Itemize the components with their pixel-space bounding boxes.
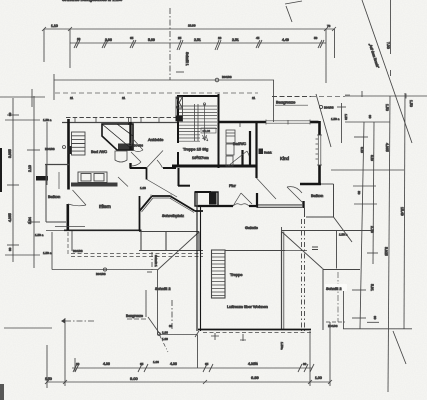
stray boundary line bottom left: [4, 327, 52, 329]
section line Schnitt 1 top: [170, 8, 189, 80]
dashed stub below Eltern west wall: [67, 232, 69, 254]
dark wall under stairs: [172, 165, 257, 168]
section Schnitt 2 east dash: [336, 231, 338, 269]
svg-text:7.00: 7.00: [386, 42, 390, 49]
svg-text:Bad /WC: Bad /WC: [91, 149, 107, 154]
luftraum right boundary double: [281, 232, 283, 331]
Bad WC east fixtures: [226, 123, 240, 166]
Flur south wall with door opening: [198, 205, 257, 207]
interior wall Bad east: [129, 122, 131, 169]
lower stair box: [212, 250, 226, 298]
section line Schnitt 1 lower stub: [147, 252, 158, 272]
svg-text:Eltern: Eltern: [99, 204, 111, 209]
outer wall north west part: dashed outer + solid inner: [66, 117, 178, 119]
dimension line total 16.99: [42, 24, 336, 32]
svg-text:1.50 a: 1.50 a: [43, 118, 52, 122]
gallery west line: [139, 232, 199, 252]
boundary line with node B04/98: [54, 74, 274, 122]
staircase divider: [195, 104, 199, 141]
wall jog balcony top: [45, 164, 70, 166]
dimension line segments top: [70, 36, 326, 50]
wall chunk x242: [241, 150, 243, 166]
svg-text:Schnitt 1: Schnitt 1: [185, 52, 189, 66]
svg-text:3.96: 3.96: [105, 38, 112, 42]
svg-text:15.49: 15.49: [400, 207, 404, 216]
Ankleide south door swing: [147, 151, 164, 169]
svg-text:Ankleide: Ankleide: [148, 137, 164, 142]
svg-text:1.50 a: 1.50 a: [43, 251, 52, 255]
door arc Bad entrance: [131, 152, 141, 166]
svg-text:Luftraum über Wohnen: Luftraum über Wohnen: [227, 304, 268, 309]
svg-text:B04/98: B04/98: [45, 147, 55, 151]
outer wall east with window: [318, 121, 321, 184]
dark survey mark left: [36, 176, 48, 181]
staircase chimney boxes: [176, 97, 183, 121]
svg-text:1.50: 1.50: [45, 377, 52, 381]
svg-text:25: 25: [178, 36, 182, 40]
svg-text:50: 50: [314, 36, 318, 40]
balcony west railing: [46, 165, 66, 223]
gallery east rail: [282, 227, 374, 250]
svg-text:05.08: 05.08: [203, 129, 211, 133]
svg-text:11: 11: [122, 96, 125, 100]
extension vline above baugrenze: [145, 290, 147, 317]
shower dark tray: [118, 144, 133, 150]
outer wall west upper: [67, 119, 70, 190]
svg-text:1.00: 1.00: [315, 376, 322, 380]
svg-text:65: 65: [205, 362, 209, 366]
outer wall north east part (dark): [218, 121, 319, 124]
svg-text:16: 16: [218, 36, 222, 40]
svg-text:Balkon: Balkon: [48, 194, 60, 199]
svg-text:Treppe 15 Stg: Treppe 15 Stg: [183, 147, 208, 152]
svg-text:30: 30: [8, 112, 12, 116]
svg-text:5.10: 5.10: [370, 155, 374, 161]
window north east: [266, 120, 310, 125]
dimension stub NE corner: [337, 103, 348, 143]
Bad WC east room walls: [250, 123, 257, 178]
svg-text:16.99: 16.99: [188, 24, 196, 28]
svg-text:1.50 a: 1.50 a: [331, 117, 340, 121]
svg-text:B04/98: B04/98: [73, 249, 83, 253]
svg-text:B04/98: B04/98: [222, 75, 232, 79]
Bad WC west dark fixture: [68, 146, 72, 154]
svg-text:Heizk: Heizk: [264, 151, 272, 155]
door swing Eltern to balcony: [55, 172, 86, 227]
svg-text:B04/98: B04/98: [96, 272, 106, 276]
svg-text:6.99: 6.99: [251, 375, 260, 380]
toilet Bad west: [115, 151, 127, 162]
bottom dimension extension verticals: [47, 318, 330, 388]
scan artifact bottom left: [0, 384, 4, 400]
short survey mark top: [285, 1, 302, 22]
svg-text:Schnitt 1: Schnitt 1: [154, 255, 158, 267]
dashed roof overhang south band: [71, 254, 203, 257]
vanity with two basins: [78, 172, 107, 183]
svg-text:10: 10: [76, 362, 80, 366]
svg-text:5.91: 5.91: [370, 284, 374, 291]
door swing into Eltern: [118, 177, 128, 187]
door post below Ankleide: [146, 168, 148, 180]
svg-text:Schnitt 2: Schnitt 2: [155, 286, 171, 291]
svg-text:65: 65: [140, 362, 144, 366]
small cross marks bottom: [211, 333, 246, 341]
svg-text:Bad/WC: Bad/WC: [233, 142, 247, 146]
gallery floor edge: [139, 250, 307, 252]
Baugrenze label north: [272, 97, 311, 106]
svg-text:Galerie: Galerie: [245, 225, 259, 230]
svg-text:Grundriss Dachgeschoss M 1:10: Grundriss Dachgeschoss M 1:100: [62, 0, 123, 2]
svg-text:11: 11: [70, 96, 73, 100]
bottom right corner diagonal: [393, 331, 406, 364]
Kind southeast wall: [300, 183, 321, 185]
balcony east railing: [305, 184, 334, 217]
svg-text:1.50: 1.50: [344, 114, 348, 120]
wall stub below Eltern: [71, 231, 73, 251]
svg-text:1.50a: 1.50a: [280, 342, 284, 350]
section line Schnitt 2 stub: [169, 300, 173, 330]
staircase upper treads: [179, 106, 217, 141]
svg-text:4.36: 4.36: [170, 362, 177, 366]
svg-text:4.365: 4.365: [385, 143, 389, 152]
roof slope diagonal balcony: [334, 217, 353, 242]
svg-text:1.30: 1.30: [162, 337, 168, 341]
dashed line below south wall: [203, 332, 311, 334]
south wall extension left: [46, 230, 64, 232]
svg-text:30: 30: [8, 247, 12, 251]
svg-text:1.50: 1.50: [385, 104, 389, 111]
Ankleide south wall: [130, 167, 176, 169]
vertical below diagonal east: [323, 269, 361, 331]
diagonal crossing baugrenze NE: [316, 94, 334, 147]
dimension extension verticals top left: [44, 29, 70, 68]
label Schnitt 2 east: [325, 284, 347, 291]
boundary line continues east: [345, 94, 427, 99]
boundary diagonal Auf dem Bruch: [362, 0, 412, 143]
svg-text:B04/98: B04/98: [324, 106, 334, 110]
svg-text:9.00: 9.00: [130, 376, 139, 381]
left dimension column: [5, 96, 66, 268]
staircase upper box walls: [177, 94, 219, 168]
svg-text:4.36: 4.36: [103, 362, 110, 366]
svg-text:Baugrenze: Baugrenze: [276, 100, 296, 105]
staircase walk line with arrow: [203, 103, 207, 140]
jog lines to bottom dims: [158, 270, 200, 368]
north wall mullion ticks: [75, 117, 159, 125]
west boundary return line: [52, 232, 158, 276]
door swing to Schreibplatz: [147, 180, 177, 198]
svg-text:3.665: 3.665: [8, 149, 12, 158]
Eltern east wall: [139, 196, 141, 231]
hatched wall band south of Bad: [71, 183, 118, 187]
svg-text:30: 30: [303, 362, 307, 366]
building south wall: [198, 329, 311, 331]
bottom dimension row 2: [45, 375, 332, 384]
Kind south double wall: [257, 205, 302, 207]
svg-text:Schreibplatz: Schreibplatz: [162, 213, 184, 218]
door swing balcony east: [287, 187, 302, 202]
balcony east door post: [302, 201, 304, 208]
svg-text:30: 30: [373, 316, 377, 320]
svg-text:Schnitt 2: Schnitt 2: [326, 286, 342, 291]
svg-text:4.36½: 4.36½: [248, 362, 258, 366]
svg-text:10: 10: [77, 37, 81, 41]
svg-text:1.10: 1.10: [51, 24, 58, 28]
shower corner Bad west: [102, 124, 133, 150]
svg-text:30: 30: [368, 115, 372, 119]
door arc shower to Ankleide: [133, 139, 143, 152]
hall west wall below stairs: [178, 168, 190, 186]
svg-text:4.49: 4.49: [282, 38, 289, 42]
svg-text:33: 33: [169, 324, 173, 328]
right dimension column: [331, 93, 413, 392]
door swing Kind: [257, 178, 277, 199]
Schreibplatz bay window inner lines: [142, 195, 195, 213]
svg-text:65: 65: [130, 36, 134, 40]
Schreibplatz bay walls: [140, 196, 204, 211]
svg-text:5.825: 5.825: [384, 247, 388, 256]
svg-text:3.34: 3.34: [28, 217, 32, 224]
door swing below stairs: [228, 151, 250, 166]
Baugrenze south dashed: [61, 314, 147, 324]
svg-text:Baugrenze: Baugrenze: [126, 314, 143, 318]
svg-text:B04/98: B04/98: [328, 324, 338, 328]
radiator mark Kind: [259, 149, 264, 155]
node B04/98 in Ankleide: [129, 143, 144, 147]
svg-text:1.50: 1.50: [409, 100, 413, 107]
svg-text:11: 11: [252, 96, 255, 100]
svg-text:Balkon: Balkon: [311, 193, 323, 198]
svg-text:3.10: 3.10: [360, 147, 364, 153]
small dimension 1.36 / 1.30: [153, 331, 168, 365]
svg-text:1.36: 1.36: [162, 331, 168, 335]
svg-text:1.36: 1.36: [153, 360, 159, 364]
chimney block gallery: [195, 192, 218, 206]
svg-text:5.69: 5.69: [148, 38, 155, 42]
boundary cross top left: [0, 89, 45, 107]
svg-text:45: 45: [256, 36, 260, 40]
svg-text:2.76: 2.76: [370, 226, 374, 233]
dimension extension x47: [46, 122, 48, 185]
svg-text:Treppe: Treppe: [230, 272, 243, 277]
dimension extension verticals top right: [326, 29, 362, 97]
svg-text:2.10: 2.10: [28, 165, 32, 172]
svg-text:Flur: Flur: [229, 183, 237, 188]
node B04/98 bottom right: [326, 322, 345, 328]
svg-text:2.51: 2.51: [194, 38, 201, 42]
svg-text:2.51: 2.51: [232, 38, 239, 42]
svg-text:1.50 a: 1.50 a: [35, 233, 44, 237]
level mark 05.08: [201, 128, 216, 141]
survey extension vertical right: [390, 0, 392, 76]
dashed wall under x307: [302, 219, 305, 331]
svg-text:4.365: 4.365: [8, 213, 12, 222]
svg-text:Kind: Kind: [280, 156, 290, 161]
balcony east north rail: [321, 183, 334, 185]
svg-text:76: 76: [327, 24, 331, 28]
Bad WC west towel radiators stacked: [72, 132, 86, 155]
svg-text:185/27cm: 185/27cm: [192, 155, 209, 160]
Eltern south wall: [64, 229, 142, 231]
svg-text:1.38: 1.38: [140, 186, 146, 190]
double door arcs Flur: [233, 193, 252, 206]
gallery west double wall: [197, 192, 201, 331]
scan artifact left edge: [0, 148, 2, 192]
svg-text:50: 50: [357, 191, 361, 195]
east window with radiator dashes: [316, 135, 323, 165]
svg-text:B04/98: B04/98: [134, 144, 144, 148]
door post x257: [256, 193, 258, 208]
bottom dimension row 1: [72, 362, 314, 372]
roof slope diagonal east: [282, 232, 323, 269]
Baugrenze diagonal jog: [148, 317, 161, 336]
dashed roof overhang line north: [55, 93, 352, 97]
outer wall west Eltern: [67, 204, 70, 231]
roof slope diagonal west: [158, 232, 200, 270]
